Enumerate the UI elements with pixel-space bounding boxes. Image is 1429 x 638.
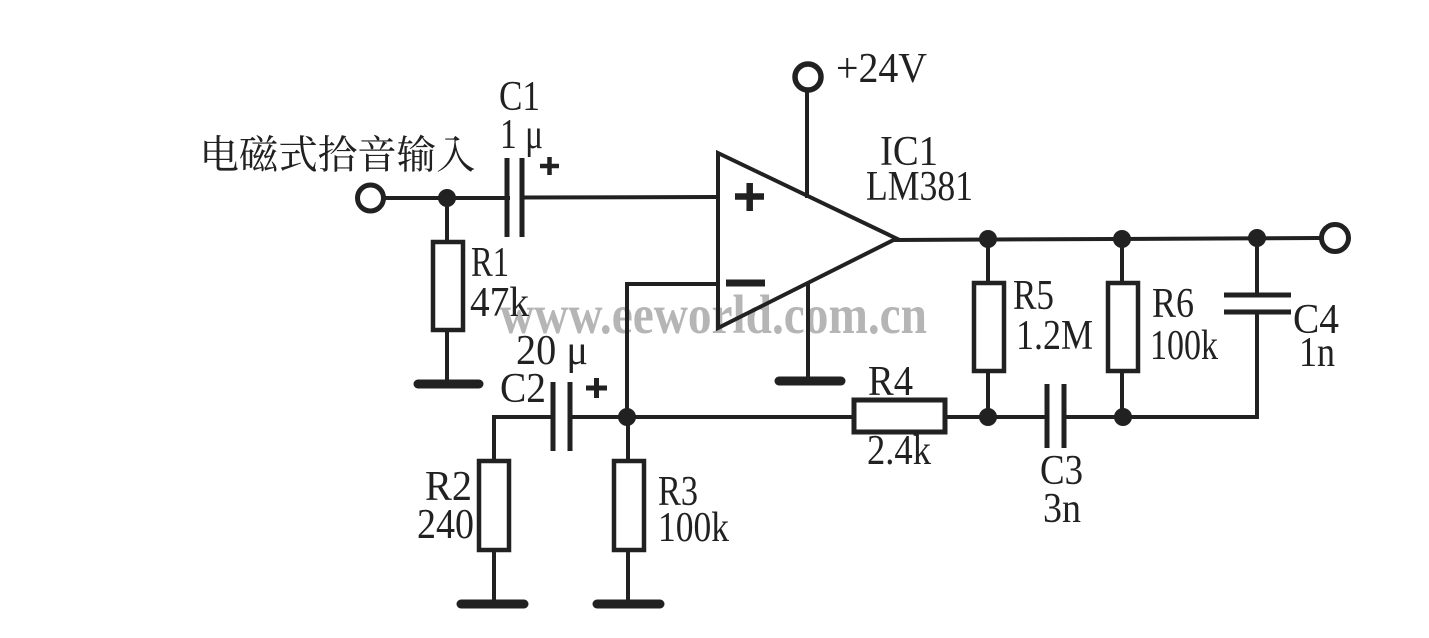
node D (output/C4) [1248,229,1266,247]
capacitor C3 3n [1040,384,1083,532]
svg-text:1 μ: 1 μ [500,112,543,158]
node G (R6 bottom) [1114,408,1132,426]
svg-text:100k: 100k [1150,323,1218,369]
resistor R5 1.2M [974,239,1093,419]
wire: feedback vertical [625,282,629,417]
svg-text:47k: 47k [470,280,529,326]
resistor R4 2.4k [854,359,945,474]
wire: feedback bottom rail [625,415,856,419]
capacitor C4 1n [1224,238,1339,419]
wire: op-amp - input [627,282,717,286]
resistor R1 47k [433,198,529,382]
wire: C2 to R2 [494,415,555,419]
+24V supply terminal [795,46,927,92]
svg-text:C2: C2 [500,366,546,412]
ground (R1) [418,380,479,389]
svg-text:240: 240 [417,502,474,548]
wire: op-amp gnd pin [806,283,810,379]
svg-text:LM381: LM381 [866,164,973,210]
ground (op-amp) [779,377,841,386]
ground (R3) [597,600,660,609]
wire: R4 to C3 node [943,415,1049,419]
svg-text:1n: 1n [1299,330,1335,376]
capacitor C2 20u [500,328,629,451]
output terminal [1322,225,1349,252]
resistor R2 240 [417,461,509,601]
svg-text:3n: 3n [1043,486,1081,532]
node E (inverting junction) [618,408,636,426]
wire: input to C1 [383,196,510,200]
wire: C1 to op-amp + input [520,195,717,200]
svg-text:100k: 100k [658,505,729,551]
node A (input junction) [438,189,456,207]
resistor R3 100k [614,415,729,601]
svg-text:R4: R4 [868,359,913,405]
wire: +24V to op-amp V+ pin [805,92,809,198]
op-amp U1 (IC1 LM381) [718,129,973,328]
node F (R5 bottom) [979,408,997,426]
input terminal [358,185,384,211]
wire: C3 to C4 corner [1062,415,1259,419]
node C (output/R6) [1113,230,1131,248]
svg-text:1.2M: 1.2M [1016,313,1093,359]
svg-text:+24V: +24V [836,46,927,92]
capacitor C1 [499,74,559,237]
node B (output/R5) [979,230,997,248]
svg-text:2.4k: 2.4k [867,428,931,474]
resistor R6 100k [1108,239,1218,418]
label: 电磁式拾音输入 (electromagnetic pickup input) [204,135,474,172]
svg-text:R6: R6 [1152,281,1194,327]
wire: op-amp output to output terminal [894,238,1320,240]
ground (R2) [461,600,524,609]
